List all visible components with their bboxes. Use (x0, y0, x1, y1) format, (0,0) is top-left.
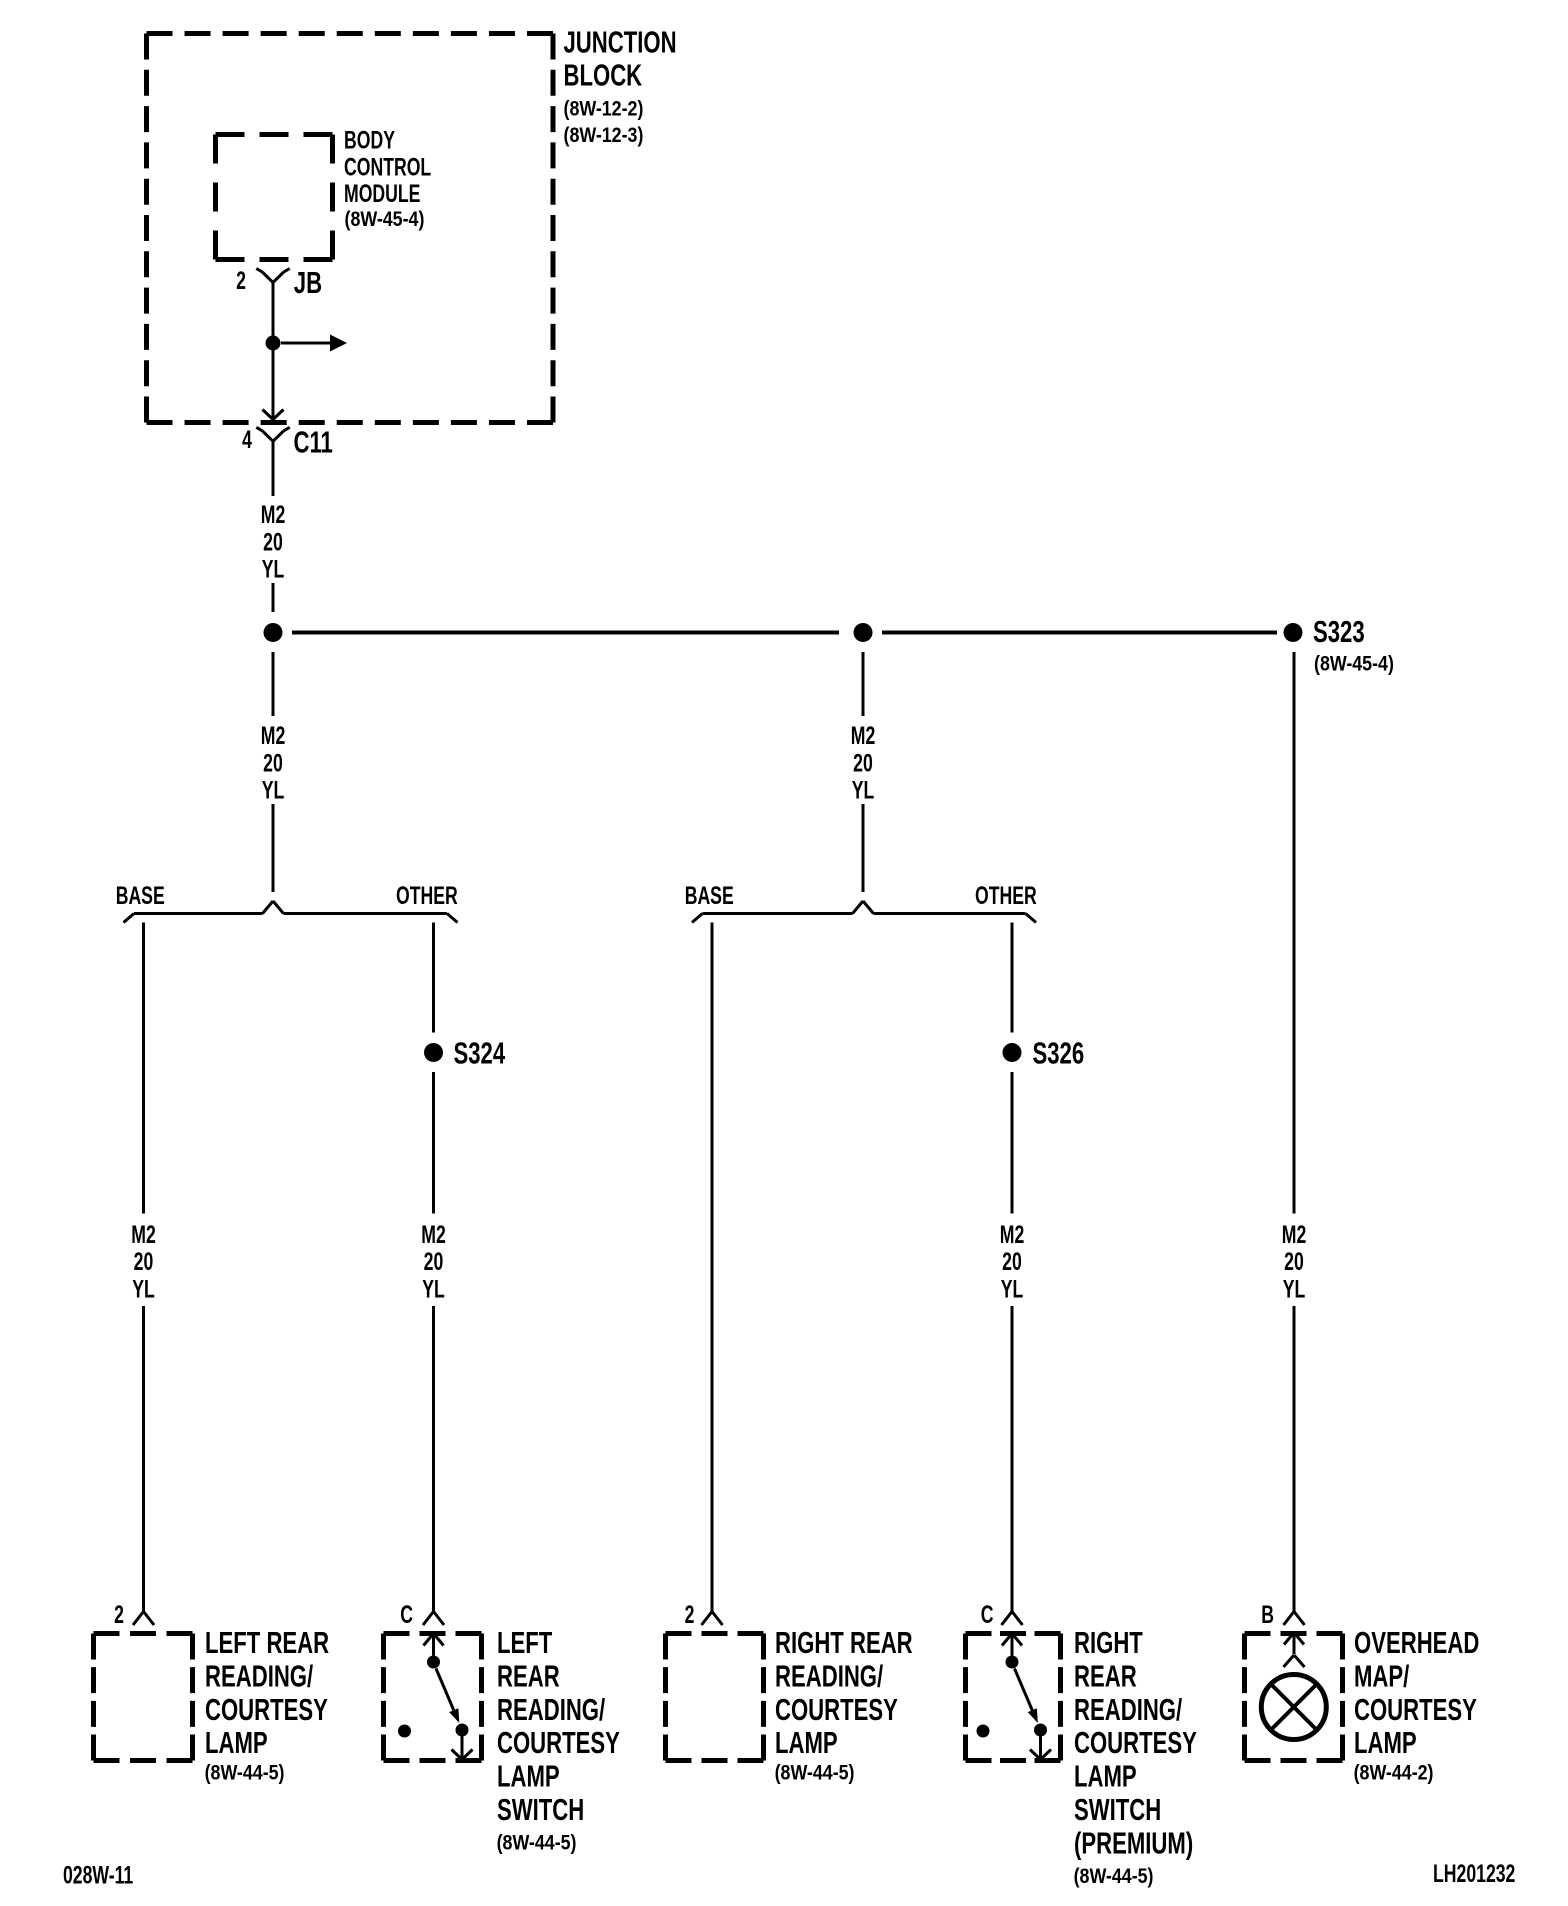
connector JB pin 2 (262, 272, 273, 283)
split bar right (874, 912, 1026, 915)
svg-text:COURTESY: COURTESY (1354, 1692, 1477, 1727)
svg-text:(8W-44-2): (8W-44-2) (1354, 1761, 1434, 1785)
svg-text:M2: M2 (1282, 1220, 1307, 1249)
svg-text:B: B (1261, 1600, 1274, 1629)
switch output arrowhead (452, 1750, 463, 1760)
wire S324 down (432, 1072, 435, 1214)
svg-text:2: 2 (685, 1600, 695, 1629)
wire (432, 1306, 435, 1612)
svg-text:BASE: BASE (685, 881, 734, 910)
svg-text:READING/: READING/ (205, 1659, 314, 1694)
trunk wire left segment (292, 631, 839, 635)
svg-text:LAMP: LAMP (205, 1726, 268, 1761)
switch input arrow (424, 1634, 434, 1646)
svg-text:LEFT REAR: LEFT REAR (205, 1625, 329, 1660)
wire (1293, 1306, 1296, 1612)
split bar left (703, 912, 853, 915)
wire BASE to right rear lamp (711, 923, 714, 1612)
svg-text:JB: JB (294, 265, 322, 300)
svg-text:S324: S324 (454, 1036, 506, 1071)
junction block (147, 31, 554, 36)
svg-text:BODY: BODY (344, 126, 395, 155)
split bar left (134, 912, 263, 915)
svg-text:(8W-45-4): (8W-45-4) (1314, 652, 1394, 676)
connector C11 pin 4 (262, 431, 273, 442)
option split caret (263, 901, 274, 914)
switch lower contact (1034, 1724, 1047, 1737)
svg-text:RIGHT: RIGHT (1074, 1625, 1143, 1660)
svg-text:(8W-44-5): (8W-44-5) (205, 1761, 285, 1785)
svg-text:COURTESY: COURTESY (1074, 1726, 1197, 1761)
svg-text:20: 20 (853, 748, 873, 777)
splice node left (264, 623, 283, 642)
switch output wire (1039, 1736, 1042, 1760)
svg-text:LAMP: LAMP (497, 1759, 560, 1794)
svg-text:CONTROL: CONTROL (344, 152, 431, 181)
switch left contact (398, 1725, 411, 1738)
svg-text:COURTESY: COURTESY (775, 1692, 898, 1727)
svg-text:SWITCH: SWITCH (497, 1792, 584, 1827)
splice S323 (1284, 623, 1303, 642)
connector pin 2 right rear lamp (702, 1612, 713, 1626)
svg-text:M2: M2 (1000, 1220, 1025, 1249)
wire (272, 583, 275, 612)
switch common contact (1006, 1656, 1019, 1669)
connector pin B overhead lamp (1284, 1612, 1295, 1626)
svg-text:YL: YL (1283, 1274, 1306, 1303)
lamp bulb (1261, 1675, 1326, 1740)
svg-text:2: 2 (114, 1600, 124, 1629)
svg-text:MAP/: MAP/ (1354, 1659, 1410, 1694)
splice S324 (424, 1043, 443, 1062)
svg-text:OTHER: OTHER (975, 881, 1037, 910)
wire S323 down (1293, 652, 1296, 1214)
svg-text:YL: YL (262, 775, 285, 804)
svg-text:LH201232: LH201232 (1433, 1859, 1515, 1888)
svg-text:YL: YL (1001, 1274, 1024, 1303)
lamp connector chevron (1284, 1655, 1295, 1667)
arrowhead at junction block boundary (263, 410, 274, 420)
svg-text:20: 20 (263, 527, 283, 556)
svg-text:REAR: REAR (497, 1659, 560, 1694)
svg-text:2: 2 (236, 266, 246, 295)
svg-text:20: 20 (263, 748, 283, 777)
svg-text:C: C (981, 1600, 994, 1629)
connector pin 2 left rear lamp (133, 1612, 144, 1626)
svg-text:(8W-44-5): (8W-44-5) (775, 1761, 855, 1785)
switch lower contact (456, 1724, 469, 1737)
svg-text:M2: M2 (261, 721, 286, 750)
split bar right (284, 912, 448, 915)
svg-text:YL: YL (422, 1274, 445, 1303)
svg-text:OVERHEAD: OVERHEAD (1354, 1625, 1479, 1660)
svg-text:M2: M2 (851, 721, 876, 750)
svg-text:BLOCK: BLOCK (564, 58, 643, 93)
svg-text:OTHER: OTHER (396, 881, 458, 910)
switch blade with arrow (1015, 1669, 1034, 1713)
wire OTHER to S324 (432, 923, 435, 1033)
splice node middle (854, 623, 873, 642)
svg-text:4: 4 (242, 425, 252, 454)
switch output arrowhead (1030, 1750, 1041, 1760)
svg-text:(8W-12-3): (8W-12-3) (564, 124, 644, 148)
connector pin C right rear switch (1002, 1612, 1013, 1626)
svg-text:20: 20 (134, 1247, 154, 1276)
wire (142, 1306, 145, 1612)
splice S326 (1003, 1043, 1022, 1062)
svg-text:LAMP: LAMP (775, 1726, 838, 1761)
svg-text:20: 20 (1284, 1247, 1304, 1276)
svg-text:(8W-45-4): (8W-45-4) (345, 208, 425, 232)
svg-text:READING/: READING/ (497, 1692, 606, 1727)
left rear reading/courtesy lamp (94, 1631, 193, 1636)
svg-text:C: C (400, 1600, 413, 1629)
wire splice to left split (272, 652, 275, 716)
switch output wire (461, 1736, 464, 1760)
svg-text:YL: YL (262, 554, 285, 583)
svg-text:S323: S323 (1313, 614, 1365, 649)
svg-text:YL: YL (132, 1274, 155, 1303)
lamp input arrow (1284, 1633, 1294, 1645)
svg-text:LAMP: LAMP (1354, 1726, 1417, 1761)
svg-text:COURTESY: COURTESY (497, 1726, 620, 1761)
switch input arrow (1002, 1634, 1012, 1646)
svg-text:(8W-44-5): (8W-44-5) (1074, 1864, 1154, 1888)
left rear reading/courtesy lamp switch (384, 1631, 482, 1636)
wire BASE to left rear lamp (142, 923, 145, 1214)
svg-text:READING/: READING/ (775, 1659, 884, 1694)
svg-text:YL: YL (852, 775, 875, 804)
wire M2 20 YL (C11 down) (272, 441, 275, 496)
svg-text:M2: M2 (261, 500, 286, 529)
body control module U1 (216, 132, 333, 137)
svg-text:M2: M2 (131, 1220, 156, 1249)
arrow to other circuits (281, 342, 330, 345)
svg-text:MODULE: MODULE (344, 179, 420, 208)
switch common contact (427, 1656, 440, 1669)
switch left contact (977, 1725, 990, 1738)
svg-text:(PREMIUM): (PREMIUM) (1074, 1826, 1193, 1861)
svg-text:20: 20 (1002, 1247, 1022, 1276)
wire JB to C11 (272, 283, 275, 420)
trunk wire right segment (882, 631, 1277, 635)
wire (272, 804, 275, 892)
svg-text:C11: C11 (294, 425, 333, 460)
switch blade with arrow (436, 1669, 455, 1713)
wire OTHER to S326 (1011, 923, 1014, 1033)
splice dot inside junction block (266, 336, 281, 351)
svg-text:READING/: READING/ (1074, 1692, 1183, 1727)
svg-text:COURTESY: COURTESY (205, 1692, 328, 1727)
connector pin C left rear switch (423, 1612, 434, 1626)
svg-text:S326: S326 (1033, 1036, 1085, 1071)
wire middle splice down (862, 652, 865, 716)
svg-text:RIGHT REAR: RIGHT REAR (775, 1625, 913, 1660)
svg-text:JUNCTION: JUNCTION (564, 25, 677, 60)
svg-text:(8W-44-5): (8W-44-5) (497, 1831, 577, 1855)
svg-text:LEFT: LEFT (497, 1625, 553, 1660)
wire (862, 804, 865, 892)
svg-text:SWITCH: SWITCH (1074, 1792, 1161, 1827)
right rear reading/courtesy lamp (666, 1631, 764, 1636)
svg-text:BASE: BASE (116, 881, 165, 910)
svg-text:M2: M2 (421, 1220, 446, 1249)
svg-text:(8W-12-2): (8W-12-2) (564, 97, 644, 121)
wire S326 down (1011, 1072, 1014, 1214)
svg-text:028W-11: 028W-11 (63, 1860, 133, 1889)
right rear reading/courtesy lamp switch (premium) (966, 1631, 1061, 1636)
wire (1011, 1306, 1014, 1612)
svg-text:20: 20 (424, 1247, 444, 1276)
svg-text:REAR: REAR (1074, 1659, 1137, 1694)
svg-text:LAMP: LAMP (1074, 1759, 1137, 1794)
overhead map/courtesy lamp (1245, 1631, 1343, 1636)
option split caret (853, 901, 864, 914)
